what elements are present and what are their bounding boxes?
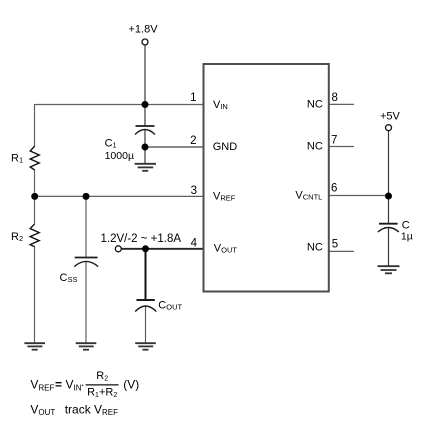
svg-text:+1.8V: +1.8V bbox=[129, 24, 159, 36]
svg-text:NC: NC bbox=[307, 242, 323, 254]
svg-text:=: = bbox=[55, 378, 62, 392]
svg-text:R1+R2: R1+R2 bbox=[87, 387, 117, 400]
svg-text:4: 4 bbox=[191, 237, 198, 249]
svg-text:·: · bbox=[81, 378, 85, 392]
svg-text:1000µ: 1000µ bbox=[105, 150, 134, 162]
svg-text:NC: NC bbox=[307, 141, 323, 153]
svg-text:8: 8 bbox=[332, 92, 338, 104]
svg-text:6: 6 bbox=[331, 183, 337, 195]
svg-text:NC: NC bbox=[307, 99, 323, 111]
svg-text:7: 7 bbox=[331, 135, 337, 147]
svg-text:C: C bbox=[402, 219, 410, 231]
svg-text:1.2V/-2 ~ +1.8A: 1.2V/-2 ~ +1.8A bbox=[101, 233, 182, 245]
svg-text:1: 1 bbox=[190, 92, 196, 104]
svg-text:1µ: 1µ bbox=[401, 231, 413, 243]
svg-text:5: 5 bbox=[332, 238, 338, 250]
svg-text:+5V: +5V bbox=[380, 110, 401, 122]
svg-text:(V): (V) bbox=[123, 378, 139, 392]
svg-text:3: 3 bbox=[191, 185, 197, 197]
svg-text:GND: GND bbox=[213, 141, 238, 153]
svg-text:2: 2 bbox=[190, 135, 196, 147]
